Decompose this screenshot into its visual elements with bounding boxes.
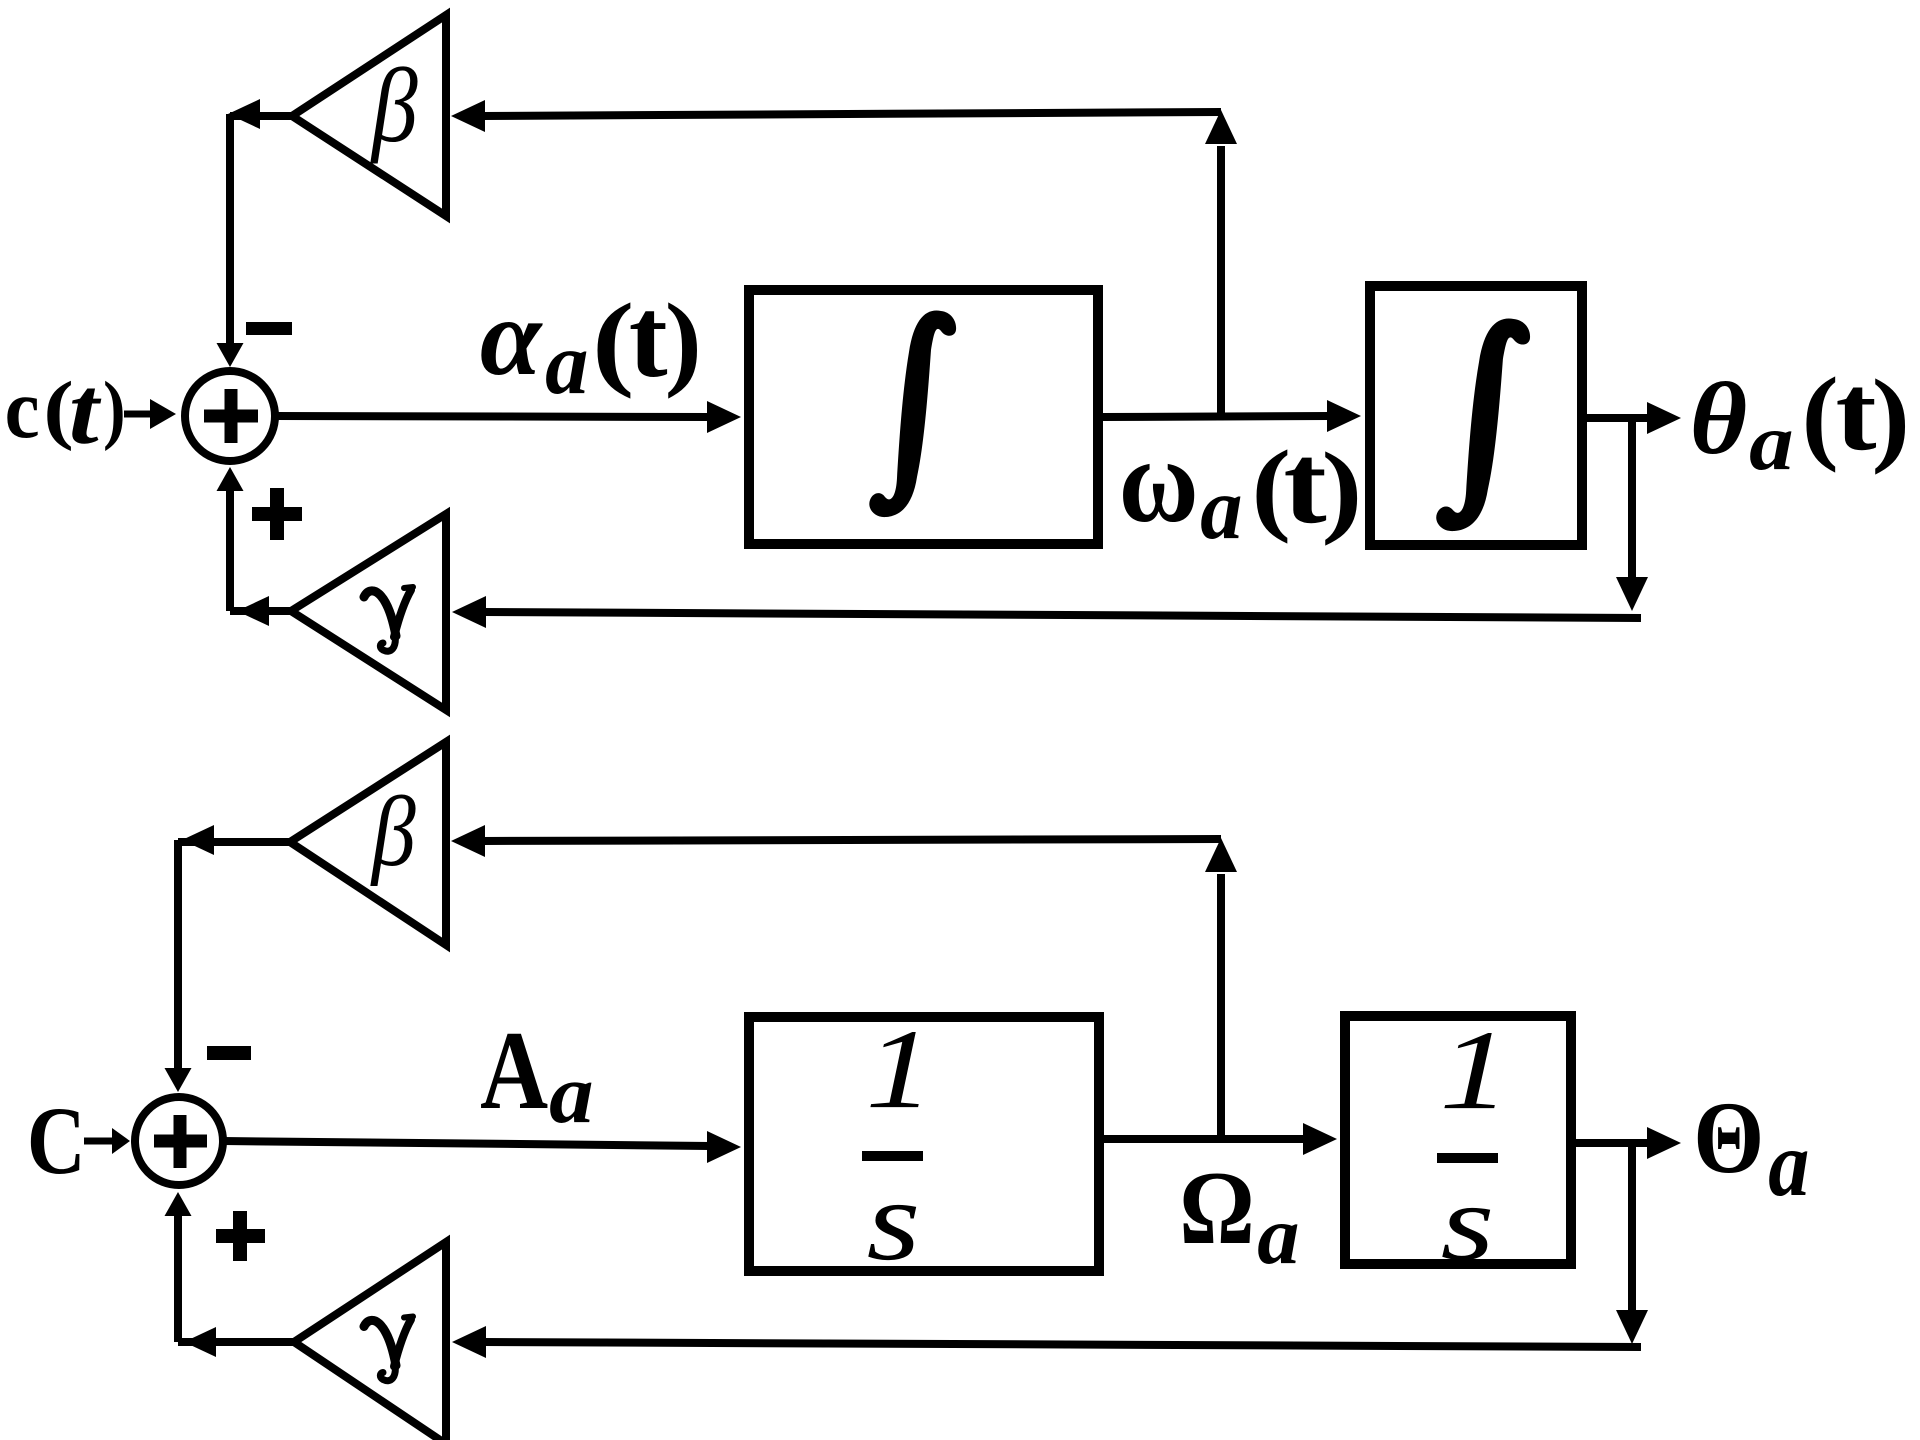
svg-text:1: 1 <box>866 1007 934 1133</box>
svg-text:): ) <box>1321 431 1362 546</box>
svg-text:s: s <box>867 1158 921 1285</box>
svg-text:): ) <box>103 365 126 451</box>
svg-text:Ω: Ω <box>1179 1150 1255 1267</box>
svg-text:A: A <box>480 1010 548 1134</box>
svg-text:a: a <box>545 315 588 413</box>
svg-text:t: t <box>629 275 668 402</box>
svg-text:θ: θ <box>1690 363 1748 476</box>
svg-text:(: ( <box>1802 356 1839 473</box>
svg-text:ω: ω <box>1119 413 1199 547</box>
svg-text:a: a <box>549 1046 593 1141</box>
svg-text:t: t <box>69 358 102 465</box>
svg-text:): ) <box>665 282 702 399</box>
svg-text:β: β <box>370 777 416 887</box>
svg-text:a: a <box>1768 1113 1809 1216</box>
svg-text:a: a <box>1749 398 1793 487</box>
svg-text:c: c <box>5 361 40 455</box>
svg-text:1: 1 <box>1439 1007 1510 1133</box>
svg-text:Θ: Θ <box>1693 1081 1764 1196</box>
svg-text:a: a <box>1200 459 1242 558</box>
svg-text:s: s <box>1441 1162 1495 1283</box>
svg-text:C: C <box>27 1087 86 1194</box>
svg-text:α: α <box>480 275 543 398</box>
svg-text:a: a <box>1257 1190 1299 1282</box>
svg-text:): ) <box>1872 358 1911 475</box>
svg-text:β: β <box>370 48 418 164</box>
